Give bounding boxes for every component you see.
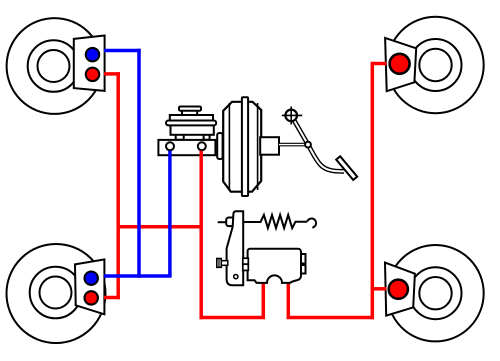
wheel cylinder front-right [385, 38, 416, 91]
master cylinder rear port [198, 142, 206, 150]
pushrod joint circle [305, 142, 311, 148]
combination valve body [248, 249, 301, 283]
booster center band [242, 97, 248, 196]
red brake line: valve right port down [288, 281, 374, 318]
lever pivot hole [234, 275, 238, 279]
red brake line: rear-left port horizontal [104, 296, 120, 300]
brake booster body [223, 102, 261, 192]
red brake line: right vertical trunk [371, 64, 375, 319]
master cylinder front port [166, 142, 174, 150]
wheel front-right drum outer circle [387, 17, 483, 113]
lever spacer block upper [243, 258, 249, 264]
master cylinder flange plate [217, 133, 222, 159]
bleeder port front-left blue [86, 48, 99, 61]
wheel rear-left hub inner circle [40, 277, 72, 309]
wheel rear-right hub middle circle [410, 267, 462, 319]
wheel front-left rotor outer circle [7, 18, 103, 114]
parking brake lever [227, 211, 244, 285]
wheel rear-left hub middle circle [30, 267, 82, 319]
blue brake line: rear-left horizontal [104, 274, 172, 278]
cable end cylinder [226, 218, 237, 227]
booster inner rim left [228, 103, 230, 190]
wheel port front-right red [390, 54, 410, 74]
red brake line: front-right port horizontal [371, 62, 387, 66]
pedal arm lower curve [308, 145, 344, 172]
wheel front-left hub middle circle [28, 40, 80, 92]
pushrod to pedal [279, 143, 308, 147]
red brake line: mid horizontal to master cylinder branch [118, 225, 201, 229]
valve right fitting upper [301, 254, 306, 264]
pedal pad [336, 156, 357, 180]
red brake line: horizontal into valve left port [200, 281, 264, 318]
parking brake cable [218, 221, 227, 223]
adjuster bolt head [217, 259, 222, 268]
wheel front-right hub inner circle [419, 49, 451, 81]
pedal pivot crosshair [282, 114, 303, 116]
reservoir foot left [176, 134, 184, 140]
wheel port rear-right red [389, 280, 408, 299]
red brake line: left vertical trunk [116, 72, 120, 299]
reservoir flange bar [166, 121, 216, 126]
valve right fitting lower [301, 265, 306, 274]
master cylinder body [158, 140, 215, 155]
blue brake line: left blue vertical [137, 49, 141, 278]
red brake line: master cylinder rear port vertical [199, 151, 203, 319]
blue brake line: front-left port horizontal [104, 49, 141, 53]
pedal pivot circle [285, 110, 297, 122]
booster pushrod housing [260, 137, 279, 155]
caliper front-left [74, 36, 105, 91]
reservoir cap neck [182, 111, 197, 116]
pedal arm upper segment [293, 119, 308, 145]
wheel rear-right hub inner circle [419, 277, 451, 309]
reservoir tank [171, 125, 214, 135]
reservoir cap top [179, 107, 201, 111]
bleeder port rear-left blue [85, 272, 98, 285]
adjuster bolt shaft [221, 261, 228, 266]
wheel cylinder rear-right [385, 263, 415, 316]
lever spacer block lower [243, 264, 249, 270]
caliper rear-left [75, 259, 104, 314]
wheel front-right hub middle circle [410, 39, 462, 91]
reservoir lid tier [170, 115, 213, 121]
wheel rear-right drum outer circle [387, 245, 483, 341]
reservoir foot right [204, 134, 210, 140]
wheel front-left hub inner circle [38, 50, 70, 82]
red brake line: rear-right port horizontal [372, 287, 386, 291]
booster inner rim right [257, 103, 259, 190]
spring hook [307, 218, 316, 227]
red brake line: front-left port horizontal [104, 72, 120, 76]
blue brake line: master cylinder front port vertical [168, 151, 172, 276]
return spring [244, 215, 307, 228]
bleeder port front-left red [86, 68, 99, 81]
wheel rear-left drum outer circle [7, 244, 106, 343]
bleeder port rear-left red [85, 291, 98, 304]
